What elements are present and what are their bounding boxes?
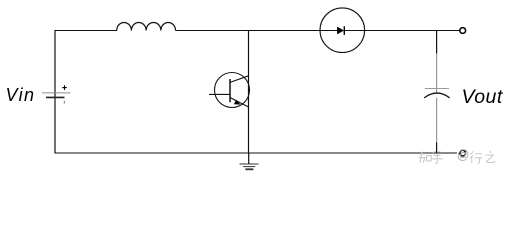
diode D1 circle <box>320 8 365 53</box>
svg-text:Vin: Vin <box>6 85 36 105</box>
output terminal <box>460 28 466 34</box>
watermark 知 <box>419 152 432 163</box>
wire right branch gray lower <box>436 98 438 143</box>
diode D1 triangle <box>337 27 344 35</box>
output terminal bottom <box>460 150 466 156</box>
diode D1 cathode bar <box>343 26 345 35</box>
watermark 之 <box>486 151 496 163</box>
capacitor C1 top plate <box>425 88 449 90</box>
ground stub <box>248 153 250 164</box>
wire top rail right segment <box>344 30 459 32</box>
wire transistor branch vertical <box>248 30 250 153</box>
wire bottom rail <box>55 152 457 154</box>
battery plus sign <box>62 85 67 90</box>
wire right branch black upper <box>436 30 438 53</box>
wire right branch black lower <box>436 142 438 153</box>
ground <box>240 164 259 169</box>
svg-text:Vout: Vout <box>462 86 504 108</box>
wire top rail left segment <box>55 30 118 32</box>
battery V1 bottom plate <box>46 96 65 98</box>
transistor Q1 emitter lead <box>230 98 249 108</box>
watermark 行 <box>470 151 482 163</box>
battery minus sign <box>63 101 65 104</box>
transistor Q1 emitter arrow <box>234 100 241 105</box>
svg-text:@: @ <box>457 148 470 162</box>
transistor Q1 base lead <box>209 93 230 95</box>
transistor Q1 circle <box>215 73 250 108</box>
battery V1 top plate <box>42 92 71 94</box>
wire right branch gray upper <box>436 53 438 93</box>
wire top rail mid segment <box>176 30 338 32</box>
transistor Q1 base bar <box>229 79 231 102</box>
wire left vertical <box>54 30 56 153</box>
capacitor C1 curved plate <box>424 93 450 98</box>
watermark 乎 <box>432 151 443 163</box>
transistor Q1 collector lead <box>230 76 249 83</box>
inductor L1 <box>117 23 176 31</box>
